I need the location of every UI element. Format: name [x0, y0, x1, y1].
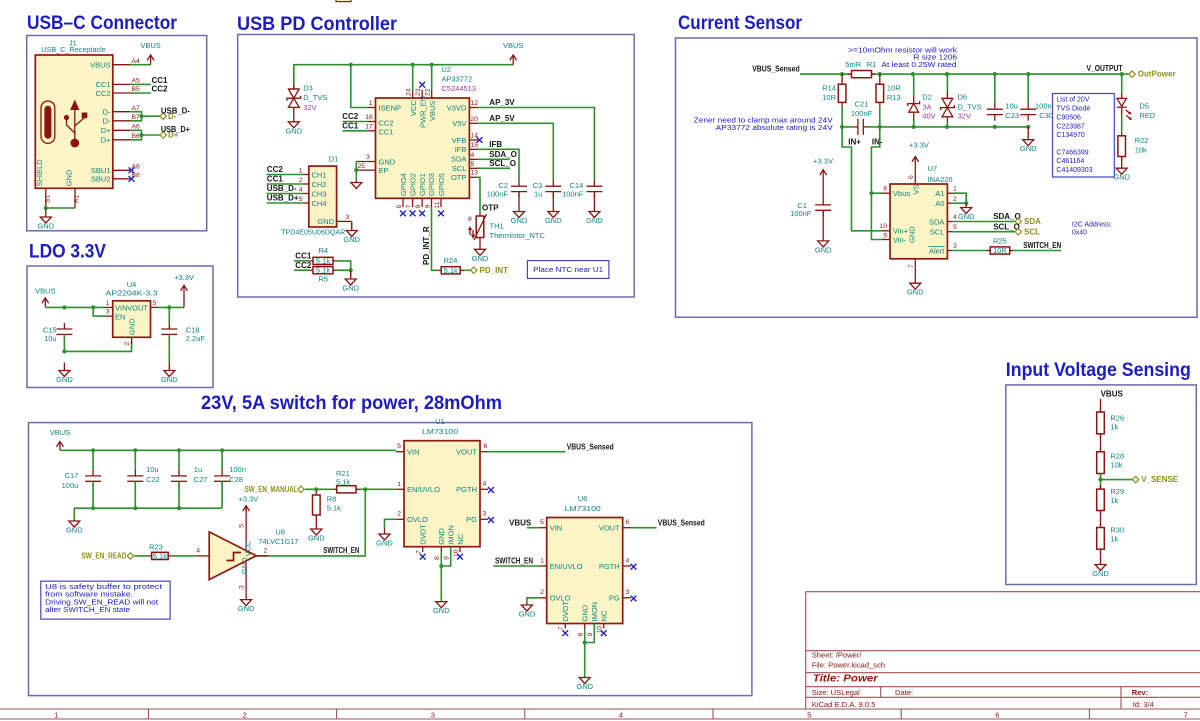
svg-text:22: 22 — [424, 88, 431, 96]
U1 pin 6 VOUT — [480, 443, 488, 452]
ground TH1 — [472, 241, 489, 262]
svg-text:GND: GND — [308, 534, 325, 543]
svg-text:R4: R4 — [319, 246, 329, 255]
wire IN+ down to Vin+ — [842, 127, 882, 231]
wire R29-R30 — [1100, 511, 1102, 528]
U7 pin 10 Vin+ — [879, 223, 890, 231]
svg-text:alter SWITCH_EN state: alter SWITCH_EN state — [45, 607, 130, 614]
svg-text:GND: GND — [586, 216, 603, 225]
power VBUS (switch) — [50, 428, 70, 450]
svg-text:B5: B5 — [132, 86, 141, 93]
wire R28-R29 — [1100, 474, 1102, 490]
wire SW_EN_READ to R23 — [134, 555, 147, 557]
wire R24 to PD_INT — [464, 269, 470, 271]
svg-text:C7466399: C7466399 — [1056, 150, 1088, 157]
svg-text:D6: D6 — [958, 93, 968, 102]
no-connect SBU2 — [129, 176, 135, 182]
svg-text:SWITCH_EN: SWITCH_EN — [495, 556, 533, 565]
ground U8 — [238, 600, 255, 614]
svg-text:0x40: 0x40 — [1072, 230, 1087, 237]
wire C27 bottom — [178, 481, 180, 508]
svg-text:3: 3 — [346, 214, 350, 221]
svg-text:USB_C_Receptacle: USB_C_Receptacle — [41, 45, 106, 54]
svg-text:AP_5V: AP_5V — [489, 114, 515, 123]
junction S1 — [44, 206, 48, 210]
svg-text:2: 2 — [124, 342, 131, 346]
svg-text:5: 5 — [299, 196, 303, 203]
svg-text:VCC: VCC — [244, 540, 253, 556]
svg-text:11: 11 — [434, 201, 441, 208]
junction D2 top — [911, 72, 915, 76]
svg-text:1: 1 — [397, 481, 401, 488]
svg-text:VBUS: VBUS — [90, 61, 110, 70]
svg-text:A6: A6 — [132, 124, 141, 131]
no-connect PWR_EN — [419, 82, 425, 88]
svg-text:32V: 32V — [958, 111, 971, 120]
svg-text:9: 9 — [425, 205, 432, 209]
svg-text:GND: GND — [1113, 173, 1130, 182]
svg-text:DVDT: DVDT — [561, 601, 570, 622]
svg-text:6: 6 — [995, 710, 999, 719]
ground C2 — [511, 192, 528, 225]
IC U2 AP33772 body — [376, 65, 477, 199]
svg-text:VIN: VIN — [115, 303, 128, 312]
svg-text:GND: GND — [472, 254, 489, 263]
capacitor C22 — [127, 450, 160, 487]
U2 pin 20 V5V / AP_5V — [469, 116, 478, 124]
U2 pin 5 SCL — [469, 161, 478, 169]
U2 pin 16 CC2 — [365, 114, 375, 121]
svg-text:5: 5 — [953, 224, 957, 231]
svg-text:Vin-: Vin- — [893, 235, 907, 244]
svg-text:SW_EN_READ: SW_EN_READ — [81, 552, 126, 561]
J1 pin S1 SHIELD — [35, 159, 52, 208]
U1 pin 1 EN — [396, 481, 404, 489]
svg-text:GND: GND — [511, 216, 528, 225]
svg-text:Sheet: /Power/: Sheet: /Power/ — [812, 651, 863, 660]
svg-text:8: 8 — [434, 556, 441, 560]
svg-text:OVLO: OVLO — [407, 515, 428, 524]
svg-text:SCL_O: SCL_O — [489, 159, 516, 168]
U6 pin 4 PGTH nc — [623, 557, 637, 569]
U2 pin 4 SDA — [469, 152, 478, 160]
wire USB_D+ bus — [130, 130, 160, 140]
U6 pin 10 NC nc — [597, 624, 607, 637]
ground C14 — [586, 192, 603, 225]
note resistor sizing — [848, 47, 958, 69]
resistor R1 5mR — [845, 60, 876, 78]
svg-text:CC1: CC1 — [295, 252, 312, 261]
svg-text:2: 2 — [299, 177, 303, 184]
svg-text:I2C Address:: I2C Address: — [1072, 222, 1112, 229]
svg-text:2: 2 — [540, 589, 544, 596]
svg-text:PD_INT_R: PD_INT_R — [422, 226, 431, 265]
svg-text:USB PD Controller: USB PD Controller — [237, 14, 398, 35]
svg-text:13: 13 — [471, 169, 479, 176]
junction C30 bottom — [1026, 125, 1030, 129]
svg-text:10R: 10R — [887, 83, 901, 92]
capacitor C15 — [43, 323, 73, 343]
U7 pin 7 GND — [908, 259, 915, 275]
hier label D- / local USB_D- — [160, 106, 190, 120]
svg-text:TH1: TH1 — [490, 222, 504, 231]
label IN- — [872, 138, 883, 147]
junction U1 gnd — [439, 564, 443, 568]
svg-text:5.1k: 5.1k — [327, 503, 341, 512]
diode D6 D_TVS — [941, 74, 982, 127]
svg-text:PD_INT: PD_INT — [480, 266, 509, 275]
svg-text:Input Voltage Sensing: Input Voltage Sensing — [1006, 360, 1191, 381]
capacitor C14 — [562, 180, 602, 198]
section frame Current Sensor — [676, 38, 1198, 317]
svg-text:Rev:: Rev: — [1132, 688, 1148, 697]
resistor R21 — [333, 469, 360, 493]
svg-text:GND: GND — [545, 216, 562, 225]
J1 pin A6 D+ — [101, 124, 140, 136]
svg-text:Driving SW_EN_READ will not: Driving SW_EN_READ will not — [45, 599, 158, 606]
svg-text:2: 2 — [397, 511, 401, 518]
junction C17 bottom — [91, 506, 95, 510]
wire U2 GND/EP — [355, 162, 357, 181]
svg-text:6: 6 — [908, 175, 915, 179]
svg-text:GND: GND — [379, 157, 396, 166]
U2 pin 3 GND — [356, 154, 375, 162]
capacitor C1 — [790, 156, 833, 218]
U2 pin 17 CC1 — [365, 124, 375, 131]
svg-text:A4: A4 — [132, 58, 141, 65]
U4 pin 5 — [151, 300, 159, 308]
svg-text:5mR: 5mR — [845, 60, 861, 69]
svg-text:7: 7 — [416, 550, 423, 554]
svg-text:24: 24 — [405, 88, 412, 96]
ground U2 — [351, 181, 362, 189]
capacitor C17 — [62, 450, 101, 490]
svg-text:23V, 5A switch for power, 28mO: 23V, 5A switch for power, 28mOhm — [201, 393, 502, 414]
ground R22 — [1113, 157, 1130, 182]
ground J1 — [37, 209, 54, 231]
svg-text:6: 6 — [484, 443, 488, 450]
svg-text:Vbus: Vbus — [893, 189, 910, 198]
wire CC1 label — [130, 83, 151, 85]
svg-text:PG: PG — [466, 515, 477, 524]
U7 pin 8 Vbus — [882, 186, 890, 194]
J1 pin A8 SBU1 — [91, 164, 140, 176]
svg-text:Current Sensor: Current Sensor — [678, 13, 803, 34]
hier label SW_EN_MANUAL — [245, 485, 305, 494]
IC U6 LM73100 body — [547, 494, 623, 624]
svg-text:1k: 1k — [1110, 535, 1118, 544]
svg-text:SW_EN_MANUAL: SW_EN_MANUAL — [245, 485, 298, 494]
wire/label USB_D+ — [267, 194, 304, 203]
wire VBUS_Sensed rail — [800, 73, 1129, 75]
svg-text:GND: GND — [66, 526, 83, 535]
svg-text:VBUS: VBUS — [509, 518, 532, 527]
U1 pin 10 NC nc — [453, 547, 463, 560]
svg-text:GND: GND — [958, 212, 975, 221]
svg-text:2: 2 — [243, 710, 247, 719]
svg-text:USB–C Connector: USB–C Connector — [27, 13, 178, 34]
label V_OUTPUT — [1087, 64, 1123, 73]
svg-text:1u: 1u — [194, 465, 202, 474]
svg-text:1: 1 — [299, 167, 303, 174]
svg-text:7: 7 — [908, 264, 915, 268]
svg-text:8: 8 — [415, 205, 422, 209]
svg-text:R24: R24 — [444, 256, 458, 265]
svg-text:θ: θ — [468, 216, 472, 223]
svg-text:4: 4 — [471, 152, 475, 159]
svg-text:2.2uF: 2.2uF — [186, 334, 206, 343]
svg-text:GND: GND — [343, 235, 360, 244]
svg-text:GND: GND — [815, 245, 832, 254]
junction VBUS pin — [430, 63, 434, 67]
thermistor TH1 — [468, 212, 546, 242]
svg-text:GND: GND — [285, 126, 302, 135]
svg-text:25: 25 — [358, 163, 366, 170]
wire CC2 to R5 — [294, 261, 312, 270]
svg-text:7: 7 — [1184, 710, 1188, 719]
svg-text:GND: GND — [433, 606, 450, 615]
resistor R29 — [1097, 485, 1124, 514]
IC U7 INA226 body — [890, 164, 953, 259]
svg-text:2: 2 — [264, 547, 268, 554]
ground rail gnd — [1020, 127, 1037, 153]
svg-text:C22: C22 — [146, 475, 160, 484]
svg-text:GND: GND — [519, 610, 536, 619]
svg-text:LM73100: LM73100 — [422, 427, 458, 436]
svg-text:R29: R29 — [1110, 487, 1124, 496]
svg-text:5: 5 — [153, 300, 157, 307]
svg-text:5: 5 — [540, 519, 544, 526]
svg-text:GND: GND — [161, 375, 178, 384]
U2 pin 23 PWR_EN — [415, 88, 422, 98]
power VBUS (PD) — [503, 41, 523, 65]
svg-text:3: 3 — [626, 589, 630, 596]
svg-text:TVS Diode: TVS Diode — [1056, 105, 1090, 112]
resistor R30 — [1097, 524, 1124, 554]
svg-text:IMON: IMON — [447, 525, 456, 545]
wire R14 to C21 rail — [842, 106, 853, 127]
svg-text:3A: 3A — [922, 102, 931, 111]
svg-text:INA226: INA226 — [928, 175, 953, 184]
svg-text:GND: GND — [240, 557, 249, 574]
svg-text:CC2: CC2 — [152, 84, 169, 93]
svg-text:C27: C27 — [194, 475, 208, 484]
svg-text:VOUT: VOUT — [127, 303, 148, 312]
svg-text:ISENP: ISENP — [379, 103, 402, 112]
label VBUS_Sensed (sensor) — [752, 65, 800, 74]
svg-text:VBUS: VBUS — [1101, 389, 1124, 398]
svg-text:USB_D-: USB_D- — [161, 106, 190, 115]
junction D2 bottom — [912, 125, 916, 129]
junction V_SENSE — [1098, 478, 1102, 482]
svg-text:VCC: VCC — [409, 100, 418, 116]
U7 pin 2 A0 — [947, 196, 957, 203]
wire IFB to C2 — [478, 140, 519, 181]
svg-text:D+: D+ — [101, 136, 111, 145]
junction C15 gnd — [62, 349, 66, 353]
junction D- — [139, 114, 143, 118]
U6 pin 6 VOUT — [623, 519, 631, 528]
svg-text:NC: NC — [456, 533, 465, 544]
J1 pin B8 SBU2 — [91, 172, 140, 184]
svg-text:9: 9 — [883, 233, 887, 240]
svg-text:D3: D3 — [303, 83, 313, 92]
svg-text:D5: D5 — [1139, 101, 1149, 110]
wire SWITCH_EN branch down — [256, 489, 365, 556]
svg-text:C41409303: C41409303 — [1056, 167, 1092, 174]
svg-text:V3VD: V3VD — [447, 103, 467, 112]
svg-text:12: 12 — [471, 100, 479, 107]
junction R5 — [349, 268, 353, 272]
wire/label USB_D- — [267, 184, 304, 193]
ground D1 — [343, 221, 360, 244]
buffer U8 74LVC1G17 — [209, 507, 298, 600]
junction C23 top — [993, 72, 997, 76]
U4 pin 1 — [105, 300, 113, 308]
svg-text:AP33772: AP33772 — [441, 75, 472, 84]
wire C22 bottom — [134, 481, 136, 508]
wire VBUS rail (switch) — [60, 449, 396, 451]
hier label SCL — [1015, 227, 1040, 236]
capacitor C30 — [1020, 74, 1053, 121]
svg-text:VOUT: VOUT — [599, 524, 620, 533]
U2 pin 24 VCC — [405, 88, 412, 98]
svg-text:2: 2 — [953, 196, 957, 203]
svg-text:>=10mOhm resistor will work: >=10mOhm resistor will work — [848, 47, 958, 54]
svg-text:S1: S1 — [45, 194, 52, 203]
svg-text:GND: GND — [56, 375, 73, 384]
svg-text:VBUS: VBUS — [35, 287, 55, 296]
wire AP_3V to C14 — [478, 98, 594, 181]
wire/label CC1 — [267, 175, 304, 184]
ground C1 — [815, 210, 832, 254]
resistor R28 — [1097, 448, 1124, 478]
svg-text:5.1k: 5.1k — [316, 256, 330, 265]
svg-text:10u: 10u — [146, 465, 159, 474]
D1 pin 5 USB_D+ — [299, 196, 309, 203]
svg-text:GND: GND — [1020, 144, 1037, 153]
U7 pin 9 Vin- — [882, 233, 890, 240]
svg-text:U6: U6 — [578, 494, 588, 503]
svg-text:SDA_O: SDA_O — [489, 150, 517, 159]
capacitor C2 — [487, 180, 527, 198]
power +3.3V (U8) — [238, 495, 258, 511]
capacitor C18 — [161, 307, 205, 342]
wire SCL_O (sensor) — [952, 222, 1020, 231]
svg-text:10k: 10k — [1110, 461, 1122, 470]
ground C18 — [161, 334, 178, 384]
svg-text:3: 3 — [366, 154, 370, 161]
svg-text:GND: GND — [576, 682, 593, 691]
svg-text:File: Power.kicad_sch: File: Power.kicad_sch — [812, 660, 885, 669]
J1 USB icon — [41, 100, 87, 148]
U1 pin 9 IMON — [441, 547, 450, 566]
note Place NTC near U1 — [527, 261, 609, 279]
section frame USB PD Controller — [238, 35, 635, 298]
svg-text:4: 4 — [299, 186, 303, 193]
svg-text:1: 1 — [106, 300, 110, 307]
junction D5 — [1120, 72, 1124, 76]
svg-text:3: 3 — [431, 710, 435, 719]
ground R8 — [308, 515, 325, 543]
svg-text:20: 20 — [471, 116, 479, 123]
ground sensing — [1092, 549, 1109, 578]
section frame LDO 3.3V — [27, 266, 213, 388]
U4 pin 3 — [105, 309, 113, 317]
junction D6 top — [945, 72, 949, 76]
svg-text:D_TVS: D_TVS — [958, 102, 982, 111]
svg-text:C23: C23 — [1005, 111, 1019, 120]
svg-text:R1: R1 — [867, 60, 877, 69]
ground C15 — [56, 363, 73, 385]
svg-text:C21: C21 — [855, 100, 869, 109]
svg-text:R25: R25 — [993, 237, 1007, 246]
wire gnd rail (sensor) — [914, 126, 1028, 128]
junction R8 top — [314, 487, 318, 491]
svg-text:USB_D-: USB_D- — [267, 184, 297, 193]
svg-text:8: 8 — [577, 633, 584, 637]
wire SCL_O — [478, 159, 516, 169]
label CC1 — [152, 76, 169, 85]
wire U4 VOUT to +3.3V — [158, 306, 184, 308]
svg-text:CH4: CH4 — [312, 199, 327, 208]
svg-text:SDA: SDA — [929, 217, 944, 226]
svg-text:V5V: V5V — [452, 119, 466, 128]
junction R13 top — [878, 72, 882, 76]
D1 pin 3 GND — [337, 214, 352, 221]
J1 pin B5 CC2 — [95, 86, 140, 98]
svg-text:SCL: SCL — [930, 228, 945, 237]
resistor R26 — [1097, 408, 1124, 438]
resistor R4 — [309, 246, 337, 265]
svg-text:10R: 10R — [993, 246, 1007, 255]
svg-text:GPIO2: GPIO2 — [409, 173, 418, 196]
wire R21 to EN — [360, 488, 396, 490]
U2 pin 1 ISENP — [368, 100, 376, 108]
svg-text:KiCad E.D.A. 9.0.5: KiCad E.D.A. 9.0.5 — [812, 700, 876, 709]
U7 pin 3 Alert — [947, 243, 957, 251]
junction D+ — [139, 133, 143, 137]
junction EN branch — [91, 305, 95, 309]
wire U6 OVLO gnd — [527, 598, 539, 603]
diode D2 zener — [908, 74, 936, 127]
wire R25 to SWITCH_EN — [1014, 241, 1062, 250]
svg-text:VIN: VIN — [407, 448, 420, 457]
svg-text:U2: U2 — [441, 65, 451, 74]
svg-text:A7: A7 — [132, 105, 141, 112]
svg-text:GND: GND — [317, 217, 334, 226]
svg-text:Title: Power: Title: Power — [813, 672, 879, 684]
svg-text:5: 5 — [397, 443, 401, 450]
top edge sheet sliver — [336, 0, 351, 2]
hier label SW_EN_READ — [81, 552, 133, 561]
page bottom border ruler — [0, 709, 1200, 719]
U2 pin 11 GPIO — [434, 198, 444, 216]
svg-text:A0: A0 — [935, 199, 944, 208]
svg-text:32V: 32V — [303, 103, 316, 112]
svg-text:23: 23 — [415, 88, 422, 96]
U2 pin 13 OTP — [469, 169, 478, 177]
junction C27 top — [177, 448, 181, 452]
svg-text:IFB: IFB — [489, 140, 502, 149]
svg-text:C28: C28 — [229, 475, 243, 484]
label VBUS (U6) — [509, 518, 539, 527]
svg-text:100u: 100u — [62, 481, 79, 490]
resistor R25 — [986, 237, 1014, 256]
svg-text:3: 3 — [239, 585, 246, 589]
svg-text:1: 1 — [369, 100, 373, 107]
svg-text:VBUS_Sensed: VBUS_Sensed — [567, 443, 614, 452]
